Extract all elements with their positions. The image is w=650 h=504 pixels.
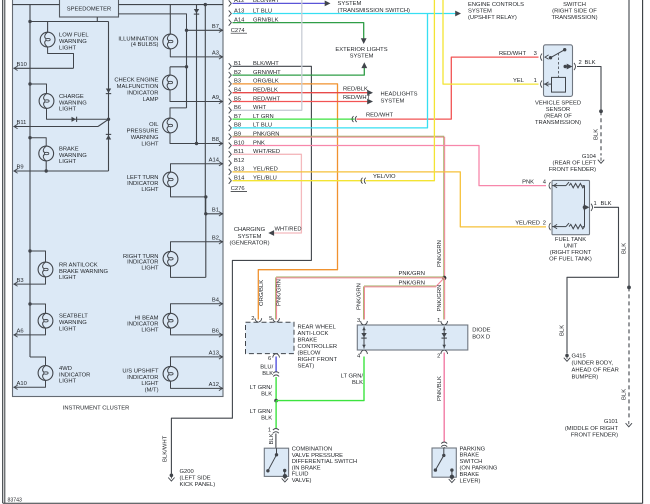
svg-text:BOX D: BOX D <box>472 334 490 340</box>
connector pin B3 <box>229 79 279 87</box>
svg-text:LIGHT: LIGHT <box>141 142 159 148</box>
connector pin B4 <box>229 88 278 96</box>
svg-text:RED/WHT: RED/WHT <box>499 51 527 57</box>
svg-text:G415: G415 <box>572 354 586 360</box>
node seatbelt top junction <box>28 302 31 305</box>
svg-text:PARKING: PARKING <box>460 446 486 452</box>
wire check engine top <box>170 67 187 75</box>
svg-text:COMBINATION: COMBINATION <box>292 447 332 453</box>
wire B5 RED/WHT to headlights <box>233 99 374 105</box>
rwal controller box <box>246 322 295 353</box>
label PNK/GRN pin5 vertical <box>277 279 283 306</box>
pin B9 <box>14 165 24 174</box>
wire BLU/BLK pin6 <box>275 357 277 373</box>
svg-text:2: 2 <box>437 353 440 359</box>
wire B13 YEL/RED to fuel tank pin2 <box>233 172 547 227</box>
connector pin B10 <box>229 140 265 148</box>
svg-text:LT GRN/: LT GRN/ <box>250 409 273 415</box>
wire top feed bus <box>13 4 224 6</box>
wire seatbelt top <box>30 304 46 313</box>
rwal pin 5 <box>269 316 279 322</box>
check engine label <box>114 77 158 103</box>
label exterior lights system <box>335 47 387 59</box>
wire A13 LT BLU <box>233 11 462 17</box>
connector pin B5 <box>229 96 281 104</box>
parking brake switch label <box>460 446 498 484</box>
svg-text:RR ANTILOCK: RR ANTILOCK <box>59 262 98 268</box>
wire B9 PNK/GRN <box>233 136 445 278</box>
rwal pin 6 <box>268 354 280 362</box>
seatbelt label <box>59 314 88 333</box>
bulb seatbelt warning light <box>38 313 53 328</box>
svg-text:BLK: BLK <box>594 129 600 140</box>
pin A14 <box>209 157 223 166</box>
wire speedometer feed leg <box>96 17 98 22</box>
svg-text:83743: 83743 <box>8 498 23 504</box>
svg-text:B1: B1 <box>212 208 219 214</box>
node brake top junction <box>28 136 31 139</box>
label PNK/GRN pin3 vertical <box>357 283 363 310</box>
node check engine top junction <box>185 65 188 68</box>
node rr antilock top junction <box>28 249 31 252</box>
fuel pin 2 <box>543 220 557 230</box>
svg-text:(MIDDLE OF RIGHT: (MIDDLE OF RIGHT <box>565 426 619 432</box>
svg-text:INSTRUMENT CLUSTER: INSTRUMENT CLUSTER <box>63 406 130 412</box>
combination valve box <box>264 448 288 476</box>
svg-text:LIGHT: LIGHT <box>59 45 77 51</box>
svg-text:DIFFERENTIAL SWITCH: DIFFERENTIAL SWITCH <box>292 459 357 465</box>
pin B8 <box>212 137 223 146</box>
bulb hi beam indicator light <box>163 313 178 328</box>
svg-text:VALVE): VALVE) <box>292 478 312 484</box>
connector pin B1 <box>229 61 280 69</box>
svg-text:BLK: BLK <box>269 433 275 444</box>
svg-text:INDICATOR: INDICATOR <box>59 372 90 378</box>
speedometer box <box>60 0 119 17</box>
vss mech link <box>558 53 560 77</box>
wire VA vertical <box>186 30 188 108</box>
label G101 <box>565 419 619 439</box>
svg-text:OIL: OIL <box>149 122 159 128</box>
low fuel label <box>59 33 89 52</box>
label transmission switch system <box>338 1 411 14</box>
svg-text:SEATBELT: SEATBELT <box>59 314 88 320</box>
svg-text:B8: B8 <box>212 137 219 143</box>
svg-text:OF FUEL TANK): OF FUEL TANK) <box>549 257 592 263</box>
svg-text:B9: B9 <box>17 165 24 171</box>
svg-text:SYSTEM: SYSTEM <box>338 1 362 7</box>
svg-text:BRAKE: BRAKE <box>59 146 79 152</box>
svg-text:PRESSURE: PRESSURE <box>127 128 159 134</box>
figure number 83743 <box>8 498 23 504</box>
combination valve contacts <box>266 448 286 476</box>
wire pin B11 run <box>14 119 109 126</box>
vehicle speed sensor box <box>544 45 573 97</box>
svg-text:B7: B7 <box>212 24 219 30</box>
pin B6 <box>212 329 223 338</box>
svg-text:ANTI-LOCK: ANTI-LOCK <box>298 331 329 337</box>
splice B14 <box>361 178 366 184</box>
vehicle speed sensor label <box>535 101 581 127</box>
svg-text:G200: G200 <box>180 469 194 475</box>
splice pin6 <box>273 372 279 377</box>
diode D1 <box>361 327 366 349</box>
vss pin 2 <box>574 60 582 70</box>
fuel tank unit box <box>552 180 590 234</box>
svg-text:SYSTEM: SYSTEM <box>350 53 374 59</box>
wire ground drop to right turn <box>205 214 207 278</box>
diode box pin 3 <box>357 318 367 325</box>
svg-text:LT GRN/: LT GRN/ <box>341 374 364 380</box>
label RED/WHT after splice <box>366 112 394 118</box>
splice B7 <box>352 116 357 122</box>
pin B10 <box>14 62 27 71</box>
label BLK combination valve <box>269 433 275 444</box>
wire ignition bus y21 <box>30 21 109 23</box>
svg-text:PNK/GRN: PNK/GRN <box>437 240 443 267</box>
wire 4wd top <box>30 357 46 366</box>
label switch right side of transmission <box>551 2 597 21</box>
svg-text:VEHICLE SPEED: VEHICLE SPEED <box>535 101 581 107</box>
label YEL/VIO <box>373 174 396 180</box>
label G104 <box>549 154 597 173</box>
label ORG/BLK vertical <box>259 280 265 306</box>
svg-text:A14: A14 <box>209 157 220 163</box>
node vss ground junction <box>599 109 603 113</box>
wire YEL to vss pin1 <box>443 0 539 84</box>
label YEL <box>513 78 525 84</box>
wire LT GRN/BLK upper <box>275 377 277 401</box>
fuel sender resistor top <box>552 182 585 188</box>
splice combination valve <box>268 428 279 434</box>
svg-text:4: 4 <box>543 179 547 185</box>
wire upshift top <box>171 357 224 367</box>
svg-text:LIGHT: LIGHT <box>141 328 159 334</box>
svg-text:SEAT): SEAT) <box>298 364 315 370</box>
bulb u/s upshift indicator light <box>163 366 178 381</box>
svg-text:PNK/GRN: PNK/GRN <box>399 280 425 286</box>
pin B7 <box>212 24 223 33</box>
svg-text:BLK: BLK <box>622 389 628 400</box>
svg-text:BUMPER): BUMPER) <box>572 375 599 381</box>
svg-text:1: 1 <box>594 201 597 207</box>
fuel internal vertical <box>584 186 586 227</box>
combination valve ground <box>282 474 288 482</box>
svg-text:REAR WHEEL: REAR WHEEL <box>298 325 337 331</box>
connector pin B13 <box>229 167 278 175</box>
pin B4 <box>212 298 223 307</box>
node top bus illumination junction <box>0 0 1 1</box>
svg-text:(UNDER BODY,: (UNDER BODY, <box>572 361 614 367</box>
svg-text:RIGHT FRONT: RIGHT FRONT <box>298 357 338 363</box>
wire illumination bottom <box>170 49 223 57</box>
svg-text:RED/BLK: RED/BLK <box>343 86 368 92</box>
svg-text:RED/WHT: RED/WHT <box>366 112 394 118</box>
illumination label <box>118 36 158 48</box>
svg-text:CHECK ENGINE: CHECK ENGINE <box>114 77 158 83</box>
svg-text:PNK: PNK <box>522 179 534 185</box>
svg-text:LIGHT: LIGHT <box>141 381 159 387</box>
wire B14 YEL/BLU segment <box>233 180 363 182</box>
label RED/BLK <box>343 86 368 92</box>
bulb right turn indicator light <box>163 251 178 266</box>
wire PNK/GRN to diode pin3 <box>364 278 445 320</box>
wire BLK dashed to G101 <box>628 287 630 419</box>
svg-text:VALVE PRESSURE: VALVE PRESSURE <box>292 453 343 459</box>
parking brake switch box <box>432 448 456 477</box>
wire B6 WHT <box>233 0 302 110</box>
svg-text:B4: B4 <box>212 298 220 304</box>
svg-text:(4 BULBS): (4 BULBS) <box>131 42 159 48</box>
bulb low fuel warning light <box>40 32 55 47</box>
label PNK/GRN horizontal 1 <box>399 271 425 277</box>
svg-text:(RIGHT SIDE OF: (RIGHT SIDE OF <box>552 9 597 15</box>
svg-text:WHT/RED: WHT/RED <box>275 227 302 233</box>
svg-text:RED/WHT: RED/WHT <box>343 95 371 101</box>
svg-text:PNK/GRN: PNK/GRN <box>437 285 443 312</box>
svg-text:B2: B2 <box>212 236 219 242</box>
label RED/WHT headlight <box>343 95 371 101</box>
wire A12 BLU/WHT <box>233 1 331 7</box>
label LT GRN/BLK diode <box>341 374 364 387</box>
left turn label <box>127 175 159 193</box>
pin B3 <box>14 278 24 287</box>
svg-text:BLK: BLK <box>601 201 612 207</box>
rwal pin 2 <box>251 316 261 322</box>
wire PNK/GRN to diode pin1 <box>443 278 446 320</box>
svg-text:FRONT FENDER): FRONT FENDER) <box>571 433 618 439</box>
wire VB diode drop <box>196 5 198 144</box>
label PNK/BLK <box>437 376 443 401</box>
connector pin B14 <box>229 176 277 184</box>
wire hi beam top <box>171 304 224 314</box>
svg-text:(REAR OF LEFT: (REAR OF LEFT <box>553 160 597 166</box>
svg-text:LIGHT: LIGHT <box>141 187 159 193</box>
bulb check engine malfunction indicator lamp <box>163 75 178 90</box>
connector pin A12 <box>229 0 280 7</box>
vss pin 1 <box>534 78 549 88</box>
svg-text:B12: B12 <box>234 158 244 164</box>
svg-text:CHARGE: CHARGE <box>59 94 84 100</box>
svg-text:(BELOW: (BELOW <box>298 351 321 357</box>
svg-text:LIGHT: LIGHT <box>59 326 77 332</box>
label PNK/GRN pin1 vertical <box>437 285 443 312</box>
pin A13 cluster <box>209 351 223 360</box>
svg-text:INDICATOR: INDICATOR <box>127 375 158 381</box>
connector pin B8 <box>229 123 272 131</box>
svg-text:G101: G101 <box>604 419 618 425</box>
diode D2 <box>442 327 447 349</box>
wire 4wd bottom <box>14 380 46 387</box>
wire upshift bottom <box>171 381 224 388</box>
connector pin B7 <box>229 114 274 122</box>
svg-text:2: 2 <box>543 220 546 226</box>
label LT GRN/BLK lower <box>250 409 273 422</box>
svg-text:FLUID: FLUID <box>292 472 309 478</box>
wire B1 BLK/WHT to G200 <box>171 66 311 473</box>
svg-text:FRONT FENDER): FRONT FENDER) <box>549 167 596 173</box>
connector pin B2 <box>229 70 281 78</box>
wire B4 RED/BLK to headlights <box>233 90 374 96</box>
node B1 ground junction <box>204 195 207 215</box>
svg-text:UNIT: UNIT <box>564 244 578 250</box>
label charging system <box>229 227 269 246</box>
label G200 <box>180 469 216 488</box>
svg-text:WARNING: WARNING <box>59 100 87 106</box>
wire vss pin2 BLK <box>577 67 601 112</box>
4wd label <box>59 366 90 385</box>
svg-text:BLK: BLK <box>622 243 628 254</box>
svg-text:LOW FUEL: LOW FUEL <box>59 33 89 39</box>
diode box pin 4 <box>357 350 367 359</box>
parking brake switch contacts <box>434 448 454 477</box>
svg-text:TRANSMISSION): TRANSMISSION) <box>535 120 581 126</box>
svg-text:INDICATOR: INDICATOR <box>127 90 158 96</box>
ground G200 <box>168 474 174 482</box>
wire BLK right vertical <box>628 0 630 287</box>
pin A3 <box>212 51 223 60</box>
hi beam label <box>127 316 159 334</box>
pin B1 <box>212 208 223 217</box>
svg-text:BRAKE: BRAKE <box>460 472 480 478</box>
wire illumination top <box>169 5 171 35</box>
svg-text:(M/T): (M/T) <box>145 387 159 393</box>
label BLK G415 run <box>560 325 566 336</box>
label G415 <box>572 354 619 381</box>
svg-text:SENSOR: SENSOR <box>546 107 570 113</box>
svg-text:BLK: BLK <box>585 60 596 66</box>
diode VB <box>194 9 199 14</box>
diode box pin 1 <box>437 318 447 325</box>
svg-text:2: 2 <box>579 60 582 66</box>
wire right turn top <box>171 242 224 252</box>
connector pin B11 <box>229 149 280 157</box>
svg-text:LIGHT: LIGHT <box>59 107 77 113</box>
bulb rr antilock brake warning light <box>38 262 53 277</box>
svg-text:PNK/GRN: PNK/GRN <box>357 283 363 310</box>
svg-text:LIGHT: LIGHT <box>141 266 159 272</box>
svg-text:B6: B6 <box>212 329 219 335</box>
wire BLK dashed to G104 <box>600 111 602 155</box>
fuel pin 1 wire <box>584 201 597 211</box>
svg-text:PNK/GRN: PNK/GRN <box>399 271 425 277</box>
svg-text:B10: B10 <box>17 62 27 68</box>
upshift label <box>122 369 159 394</box>
svg-text:B3: B3 <box>17 278 24 284</box>
wire BLK to combination valve <box>275 434 277 449</box>
svg-text:WARNING: WARNING <box>59 39 87 45</box>
wire pin B7 run <box>187 29 224 31</box>
label BLK right lower <box>622 389 628 400</box>
svg-text:BLK: BLK <box>261 416 272 422</box>
wire brake top <box>30 138 46 147</box>
svg-text:(UPSHIFT RELAY): (UPSHIFT RELAY) <box>468 15 517 21</box>
svg-text:(REAR OF: (REAR OF <box>544 114 572 120</box>
svg-text:HEADLIGHTS: HEADLIGHTS <box>381 91 418 97</box>
svg-text:SYSTEM: SYSTEM <box>468 9 492 15</box>
svg-text:WARNING: WARNING <box>59 320 87 326</box>
svg-text:EXTERIOR LIGHTS: EXTERIOR LIGHTS <box>335 47 387 53</box>
svg-text:A12: A12 <box>209 382 219 388</box>
svg-text:LAMP: LAMP <box>143 97 159 103</box>
diode VD lower <box>106 134 111 139</box>
svg-text:KICK PANEL): KICK PANEL) <box>180 482 216 488</box>
svg-text:(IN BRAKE: (IN BRAKE <box>292 465 321 471</box>
vss pickup square <box>552 77 566 92</box>
svg-text:CHARGING: CHARGING <box>234 227 266 233</box>
svg-text:3: 3 <box>357 318 360 324</box>
wire diode bus VD <box>108 22 110 172</box>
svg-text:PNK/GRN: PNK/GRN <box>277 279 283 306</box>
brake label <box>59 146 87 165</box>
wire V1 feed vertical <box>29 5 31 357</box>
svg-text:YEL/VIO: YEL/VIO <box>373 174 396 180</box>
svg-text:ORG/BLK: ORG/BLK <box>259 280 265 306</box>
svg-text:LT GRN/: LT GRN/ <box>250 385 273 391</box>
pin B11 <box>14 120 26 129</box>
parking brake ground <box>449 475 455 483</box>
label LT GRN/BLK upper <box>250 385 273 398</box>
charge label <box>59 94 87 113</box>
svg-text:(LEFT SIDE: (LEFT SIDE <box>180 476 211 482</box>
label BLK right upper <box>622 243 628 254</box>
fuel pin 4 <box>543 179 557 189</box>
diode charge line <box>72 117 77 122</box>
diode box D box <box>357 325 468 350</box>
svg-text:YEL/RED: YEL/RED <box>515 221 540 227</box>
bulb left turn indicator light <box>163 172 178 187</box>
connector pin B6 <box>229 105 267 113</box>
wire B14 YEL/VIO up <box>366 0 435 181</box>
wire B11 WHT/RED to charging system <box>233 154 302 236</box>
svg-text:BRAKE: BRAKE <box>460 453 480 459</box>
label engine controls system <box>468 2 524 21</box>
wire B2 GRN/WHT to exterior lights <box>233 62 368 75</box>
svg-text:LIGHT: LIGHT <box>59 379 77 385</box>
pin B2 <box>212 236 223 245</box>
wire pin B9 run <box>14 170 109 172</box>
label RED/WHT at sensor <box>499 51 527 57</box>
svg-text:TRANSMISSION): TRANSMISSION) <box>551 15 597 21</box>
node BLK dashed junction <box>627 286 631 290</box>
svg-text:1: 1 <box>437 318 440 324</box>
wire speedometer line B <box>119 14 187 30</box>
svg-text:(GENERATOR): (GENERATOR) <box>229 241 269 247</box>
label 2 BLK <box>585 60 596 66</box>
wire B3 ORG/BLK to controller pin2 <box>233 84 338 320</box>
instrument cluster label <box>63 406 130 412</box>
svg-text:WARNING: WARNING <box>131 135 159 141</box>
pin A6 <box>14 329 24 338</box>
wire PNK/BLK to parking brake switch <box>443 353 445 443</box>
svg-text:A6: A6 <box>17 329 24 335</box>
vss pin1 wire inside <box>544 83 552 85</box>
label PNK/GRN horizontal 2 <box>399 280 425 286</box>
node bus junctions <box>28 20 31 23</box>
svg-text:(ON PARKING: (ON PARKING <box>460 466 498 472</box>
connector C274 label <box>231 28 247 34</box>
pin A12 cluster <box>209 382 223 391</box>
node brake B9 junction <box>45 169 48 172</box>
label BLK/WHT ground run <box>162 435 168 462</box>
svg-text:6: 6 <box>268 356 271 362</box>
svg-text:SPEEDOMETER: SPEEDOMETER <box>67 7 111 13</box>
wire PNK/GRN to controller pin5 <box>276 277 445 320</box>
svg-text:SYSTEM: SYSTEM <box>238 234 262 240</box>
wire low fuel bottom <box>48 47 74 68</box>
svg-text:WARNING: WARNING <box>59 153 87 159</box>
svg-text:BLK: BLK <box>261 392 272 398</box>
